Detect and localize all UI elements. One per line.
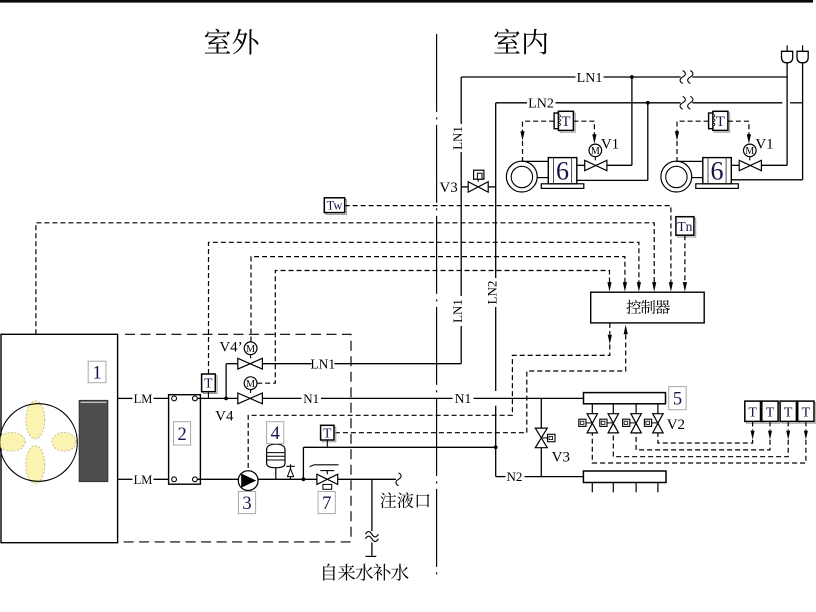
controller input from T near pump xyxy=(624,325,628,335)
svg-text:T: T xyxy=(716,114,725,130)
room thermostat T1 xyxy=(747,403,763,423)
outdoor enclosure dashed box xyxy=(121,334,352,542)
sensor T near valve7 xyxy=(322,427,335,442)
sensor Tn box xyxy=(678,219,696,238)
wire V1-1 to LN1 xyxy=(607,164,632,166)
dashed Tw to controller xyxy=(345,206,671,283)
sensor Tw box xyxy=(326,200,346,215)
room thermostat T2 xyxy=(764,403,780,423)
heat exchanger 2 xyxy=(169,395,201,485)
zone valve V2-2 xyxy=(608,414,618,424)
pipe HX to V4 xyxy=(198,397,238,399)
wire LN1 horizontal xyxy=(461,76,575,78)
fan scroll of unit #2 xyxy=(661,161,692,192)
zone valve V2-1 xyxy=(587,414,597,424)
svg-text:7: 7 xyxy=(322,494,331,514)
mounting base #1 xyxy=(541,184,584,189)
pipe N1 to V3 lower xyxy=(540,398,542,428)
svg-text:V4: V4 xyxy=(215,408,234,424)
svg-text:1: 1 xyxy=(92,363,101,383)
fan scroll of unit #1 xyxy=(506,161,537,192)
return manifold stubs xyxy=(591,483,593,493)
fill branch down xyxy=(371,479,373,531)
valve V3 lower xyxy=(535,428,547,438)
wire LN1 vertical riser xyxy=(460,77,462,124)
svg-text:M: M xyxy=(591,146,600,157)
svg-text:V3: V3 xyxy=(552,450,570,466)
expansion tank 4 xyxy=(267,444,285,468)
junction dot riser at LN2 vertical xyxy=(494,445,498,449)
svg-text:V1: V1 xyxy=(755,137,773,153)
dashed Tn to controller xyxy=(684,235,686,283)
actuator of valve V3 upper xyxy=(474,170,484,179)
junction dot LN1 / V1-1 drop xyxy=(630,75,634,79)
svg-text:LN1: LN1 xyxy=(310,357,335,372)
pipe V3 lower to N2 xyxy=(540,448,542,477)
dashed thermostat T2 to valve xyxy=(769,421,771,430)
label box 3 xyxy=(238,492,255,514)
pump 3 xyxy=(238,471,258,491)
svg-text:N1: N1 xyxy=(303,391,319,406)
svg-text:LN1: LN1 xyxy=(577,71,603,86)
wire LN2 vertical riser xyxy=(495,103,497,278)
dashed V4' motor signal line xyxy=(251,257,625,342)
wire unit-1 motor to LN2 xyxy=(577,179,648,181)
svg-text:T: T xyxy=(748,405,757,420)
fan coil motor box 6 #1 xyxy=(548,158,577,184)
dashed outdoor-unit signal line xyxy=(36,223,654,334)
wire plug P2 drop to unit-2 motor xyxy=(802,63,804,180)
label 自来水补水 xyxy=(323,564,335,581)
label 注液口 xyxy=(380,492,396,508)
zone valve V2-4 xyxy=(653,414,663,424)
thermostat T of unit #1 xyxy=(560,113,575,132)
svg-text:LN2: LN2 xyxy=(528,97,554,112)
pipe LM lower xyxy=(118,478,133,480)
svg-text:V1: V1 xyxy=(601,137,619,153)
svg-text:LN2: LN2 xyxy=(485,281,500,305)
valve 7 manual xyxy=(317,474,327,484)
actuator box of V2-3 xyxy=(630,422,636,424)
pipe HX to pump xyxy=(198,478,239,480)
page top border xyxy=(0,0,813,3)
return manifold xyxy=(583,471,666,483)
svg-text:V4’: V4’ xyxy=(219,340,242,356)
actuator box of V3 lower xyxy=(541,437,547,439)
label box 7 xyxy=(318,492,335,514)
fan circle xyxy=(0,404,77,482)
label box 4 xyxy=(267,422,284,444)
valve V4' xyxy=(238,358,250,369)
junction dot LN2 / unit-1 motor drop xyxy=(646,101,650,105)
room thermostat T3 xyxy=(782,403,798,423)
svg-text:M: M xyxy=(745,146,754,157)
fan blades xyxy=(26,401,45,439)
pipe LM upper xyxy=(118,397,133,399)
junction dot V4' branch xyxy=(224,397,228,401)
mounting base #2 xyxy=(696,184,739,189)
dashed T(heat-exchanger) signal line xyxy=(209,242,639,374)
valve V4 inline xyxy=(238,393,250,404)
svg-text:V3: V3 xyxy=(439,180,457,196)
wire box to valve V1 #2 xyxy=(731,164,739,166)
controller output to pump 3 xyxy=(609,323,611,335)
wire box to valve V1 #1 xyxy=(577,164,585,166)
label box 1 xyxy=(88,361,106,383)
outdoor unit box 1 xyxy=(1,334,118,542)
svg-text:LM: LM xyxy=(134,392,153,406)
actuator box of V2-4 xyxy=(652,422,658,424)
svg-text:LN1: LN1 xyxy=(450,299,465,323)
fan coil motor box 6 #2 xyxy=(703,158,732,184)
svg-text:T: T xyxy=(802,405,811,420)
wire V4' to LN1 riser xyxy=(262,363,311,365)
room thermostat T4 xyxy=(800,403,816,423)
control dashed T to fan #2 xyxy=(677,121,709,132)
svg-text:T: T xyxy=(204,376,213,391)
power plug P1 xyxy=(786,45,788,51)
zone valve V2-3 xyxy=(631,414,641,424)
svg-text:Tn: Tn xyxy=(677,219,692,234)
motor M of V4 xyxy=(244,377,257,390)
wire LN2 horizontal xyxy=(496,102,527,104)
svg-text:T: T xyxy=(766,405,775,420)
svg-text:LM: LM xyxy=(134,473,153,487)
control dashed T to V1 motor #1 xyxy=(573,121,594,135)
junction dot riser to N2 xyxy=(302,477,306,481)
pipe pump to valve7 xyxy=(258,478,317,480)
svg-text:M: M xyxy=(246,344,255,355)
break squiggles on LN1 xyxy=(680,71,685,84)
pipe/wire N1 xyxy=(262,397,301,399)
control dashed T to V1 motor #2 xyxy=(728,121,749,135)
label box 5 xyxy=(669,387,687,410)
dashed V4 motor signal line xyxy=(257,271,609,384)
pipe valve7 to fill port xyxy=(338,478,396,480)
svg-text:LN1: LN1 xyxy=(450,126,465,150)
svg-text:T: T xyxy=(323,426,332,441)
dashed thermostat T1 to valve xyxy=(752,421,754,430)
svg-text:6: 6 xyxy=(711,157,724,186)
title 室外 (outdoor) xyxy=(205,29,230,54)
sensor T on upper pipe xyxy=(203,376,217,394)
svg-text:N1: N1 xyxy=(455,391,472,406)
condenser coil block xyxy=(79,400,108,481)
air vent xyxy=(290,464,292,479)
pipe branch up to V4' xyxy=(225,364,227,399)
svg-text:6: 6 xyxy=(556,157,569,186)
svg-text:Tw: Tw xyxy=(327,199,343,213)
svg-text:M: M xyxy=(246,379,255,390)
wire plug P1 drop to V1-2 xyxy=(786,63,788,166)
motor M of V4' xyxy=(244,342,257,355)
actuator box of V2-2 xyxy=(607,422,613,424)
riser pipe to N2 xyxy=(302,447,304,479)
thermostat T of unit #2 xyxy=(715,113,730,132)
svg-text:2: 2 xyxy=(177,425,186,445)
title 室内 (indoor) xyxy=(494,29,519,54)
control dashed T to fan #1 xyxy=(523,121,555,132)
break squiggles on LN2 xyxy=(680,96,685,109)
break on fill branch xyxy=(365,532,378,537)
indoor/outdoor divider chain line xyxy=(436,34,438,576)
svg-text:T: T xyxy=(561,114,570,130)
supply manifold xyxy=(584,393,666,404)
fill pipe bottom xyxy=(371,543,373,556)
controller box 控制器 xyxy=(591,292,705,323)
actuator box of V2-1 xyxy=(586,422,592,424)
motor M of V1 #1 xyxy=(589,144,602,157)
valve V1 #2 xyxy=(739,160,750,170)
dashed thermostat T3 to valve xyxy=(787,421,789,430)
label box 2 xyxy=(174,422,191,445)
svg-text:4: 4 xyxy=(271,424,280,444)
controller input arrows xyxy=(607,282,611,292)
motor M of V1 #2 xyxy=(744,144,757,157)
svg-text:V2: V2 xyxy=(667,417,685,433)
fill port break squiggle xyxy=(396,473,401,486)
svg-text:3: 3 xyxy=(242,494,251,514)
valve V1 #1 xyxy=(585,160,596,170)
dashed thermostat T4 to valve xyxy=(805,421,807,430)
valve V3 (upper) xyxy=(461,186,468,188)
svg-text:5: 5 xyxy=(673,390,682,410)
svg-text:N2: N2 xyxy=(507,469,523,484)
power plug P2 xyxy=(802,45,804,51)
wire N2 xyxy=(496,476,506,478)
manifold outlet stems xyxy=(591,404,593,414)
svg-text:T: T xyxy=(784,405,793,420)
